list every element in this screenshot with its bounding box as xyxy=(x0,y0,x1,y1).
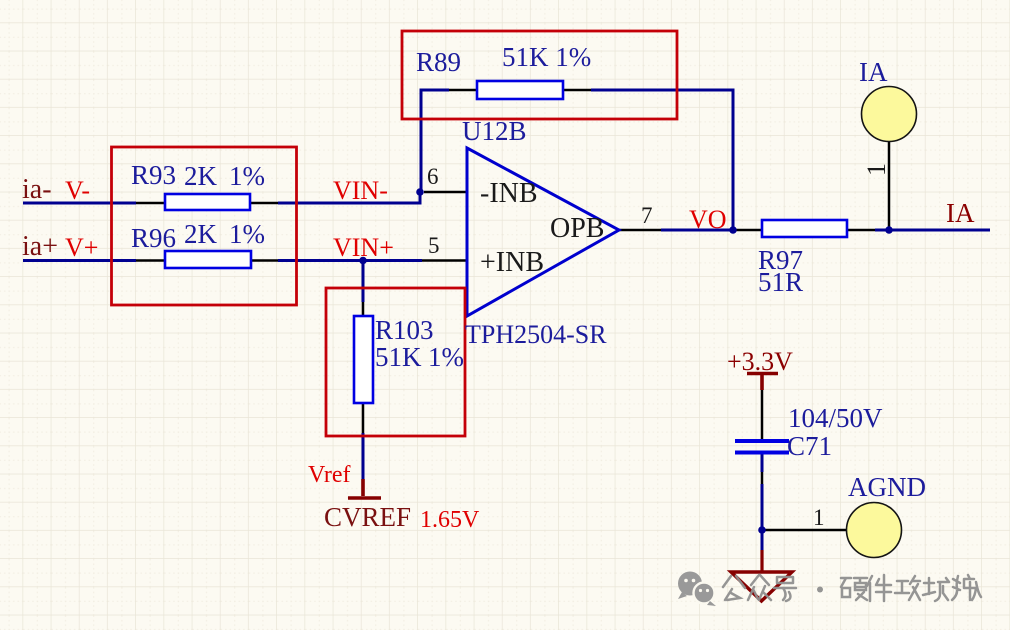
highlight box R93/R96 xyxy=(112,147,297,305)
svg-text:R89: R89 xyxy=(416,47,461,77)
svg-text:1%: 1% xyxy=(428,342,464,372)
svg-text:VIN-: VIN- xyxy=(333,176,388,205)
svg-text:1%: 1% xyxy=(229,219,265,249)
resistor R89 xyxy=(477,81,563,99)
resistor R97 pins xyxy=(734,229,875,232)
wire VIN+ down to R103 xyxy=(362,261,365,303)
wire R103 to Vref xyxy=(362,433,365,479)
svg-text:ia-: ia- xyxy=(22,174,52,205)
svg-text:1%: 1% xyxy=(229,161,265,191)
capacitor C71 plates xyxy=(735,441,789,453)
wire ia- / V- net xyxy=(23,202,136,205)
junction node VIN- xyxy=(416,188,424,196)
svg-text:5: 5 xyxy=(428,233,440,258)
svg-text:51R: 51R xyxy=(758,267,803,297)
svg-text:AGND: AGND xyxy=(848,472,926,502)
svg-text:+INB: +INB xyxy=(480,247,544,278)
svg-text:R103: R103 xyxy=(375,315,434,345)
svg-text:-INB: -INB xyxy=(480,178,538,209)
svg-text:+3.3V: +3.3V xyxy=(727,347,793,376)
wire IA net xyxy=(875,229,990,232)
wire feedback net right xyxy=(591,90,733,230)
wire VO net xyxy=(661,229,734,232)
svg-text:R93: R93 xyxy=(131,160,176,190)
port AGND circle xyxy=(847,503,902,558)
resistor R103 pins xyxy=(362,302,365,433)
svg-text:ia+: ia+ xyxy=(22,231,58,262)
op-amp pin 6 wire xyxy=(424,191,467,194)
svg-text:U12B: U12B xyxy=(462,116,527,146)
resistor R96 xyxy=(165,251,251,268)
junction node VIN+ xyxy=(359,257,367,265)
svg-text:R96: R96 xyxy=(131,223,176,253)
resistor R97 xyxy=(762,220,847,237)
svg-text:VO: VO xyxy=(689,205,727,234)
op-amp U12B triangle xyxy=(467,148,619,316)
watermark wechat icon xyxy=(678,572,716,607)
capacitor C71 top pin xyxy=(761,390,764,439)
svg-text:CVREF: CVREF xyxy=(324,502,411,532)
svg-text:51K: 51K xyxy=(375,342,422,372)
resistor R89 pins xyxy=(449,89,591,92)
svg-text:6: 6 xyxy=(427,164,439,189)
svg-text:V-: V- xyxy=(65,176,90,205)
resistor R93 xyxy=(165,194,250,210)
wire VIN+ net xyxy=(278,259,422,262)
op-amp pin 5 wire xyxy=(422,259,467,262)
svg-text:51K 1%: 51K 1% xyxy=(502,42,591,72)
svg-text:VIN+: VIN+ xyxy=(333,233,394,262)
highlight box R89 xyxy=(402,31,677,119)
resistor R103 xyxy=(354,316,373,403)
svg-text:TPH2504-SR: TPH2504-SR xyxy=(465,320,607,349)
highlight box R103 xyxy=(326,288,465,436)
watermark text 公众号 · 硬件攻城狮 xyxy=(723,575,981,601)
svg-text:IA: IA xyxy=(859,57,888,87)
wire C71 bottom xyxy=(761,454,764,550)
wire feedback net left vertical xyxy=(421,90,449,192)
svg-text:OPB: OPB xyxy=(550,213,604,244)
wire VIN- net xyxy=(278,192,420,203)
svg-text:C71: C71 xyxy=(787,431,832,461)
svg-text:Vref: Vref xyxy=(308,462,351,488)
capacitor C71 bottom pin xyxy=(761,472,764,484)
op-amp pin 7 wire xyxy=(619,229,661,232)
port IA pin wire xyxy=(888,142,891,230)
port IA circle xyxy=(862,87,917,142)
svg-text:2K: 2K xyxy=(184,219,218,249)
power port +3.3V symbol xyxy=(747,374,778,391)
svg-text:IA: IA xyxy=(946,198,975,228)
svg-text:7: 7 xyxy=(641,203,653,228)
junction node AGND xyxy=(758,526,766,534)
port AGND pin wire xyxy=(762,529,847,532)
resistor R96 pins xyxy=(136,259,278,262)
svg-text:V+: V+ xyxy=(65,233,98,262)
svg-text:104/50V: 104/50V xyxy=(788,403,883,433)
wire ia+ / V+ net xyxy=(23,259,136,262)
svg-text:1: 1 xyxy=(813,505,825,530)
junction node IA xyxy=(885,226,893,234)
resistor R93 pins xyxy=(136,202,278,205)
svg-text:1: 1 xyxy=(862,163,891,176)
svg-text:1.65V: 1.65V xyxy=(420,507,480,533)
svg-text:2K: 2K xyxy=(184,161,218,191)
junction node VO xyxy=(729,226,737,234)
power port CVREF symbol xyxy=(348,479,381,498)
ground symbol AGND xyxy=(760,550,763,571)
